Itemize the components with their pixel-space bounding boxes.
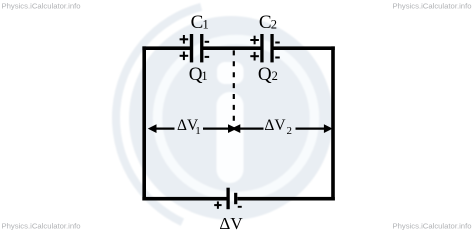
svg-text:Q: Q <box>258 64 272 85</box>
svg-text:C: C <box>259 12 272 33</box>
svg-text:1: 1 <box>195 125 201 137</box>
svg-text:Physics.iCalculator.info: Physics.iCalculator.info <box>392 2 471 11</box>
svg-text:2: 2 <box>272 69 278 83</box>
svg-text:2: 2 <box>271 17 277 31</box>
svg-text:Physics.iCalculator.info: Physics.iCalculator.info <box>2 2 81 11</box>
svg-text:1: 1 <box>203 17 209 31</box>
svg-text:C: C <box>191 12 204 33</box>
svg-text:1: 1 <box>201 69 207 83</box>
svg-text:ΔV: ΔV <box>219 214 243 233</box>
svg-text:Physics.iCalculator.info: Physics.iCalculator.info <box>2 222 81 231</box>
svg-text:2: 2 <box>287 125 293 137</box>
svg-text:Physics.iCalculator.info: Physics.iCalculator.info <box>392 222 471 231</box>
svg-text:ΔV: ΔV <box>264 117 286 134</box>
